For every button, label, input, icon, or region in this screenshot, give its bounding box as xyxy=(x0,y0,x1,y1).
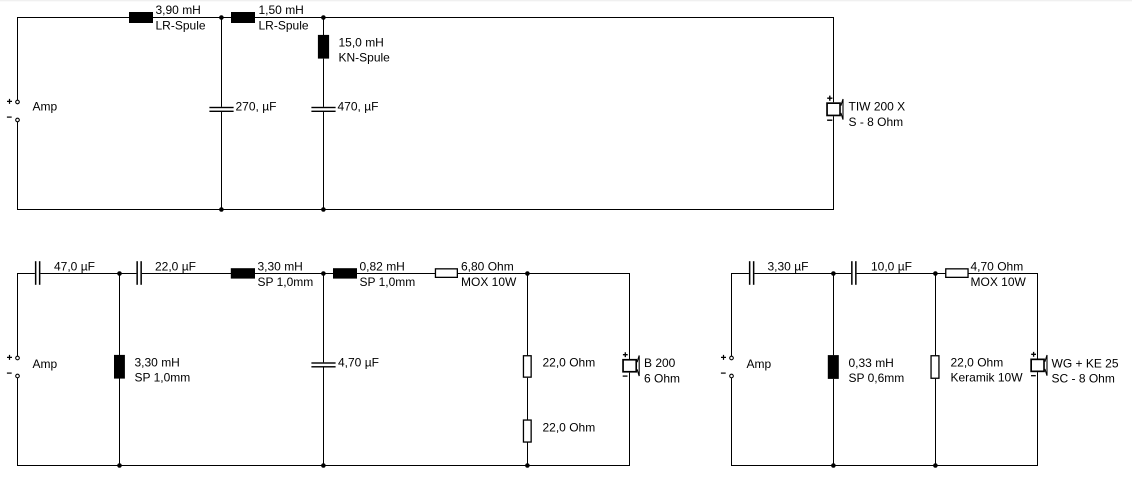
wire left side upper (amp + lead) xyxy=(17,17,19,100)
wire left side lower circuit 3 xyxy=(731,378,733,466)
svg-text:Amp: Amp xyxy=(747,357,772,371)
svg-text:4,70 Ohm: 4,70 Ohm xyxy=(971,259,1024,273)
wire branch F lower xyxy=(833,379,835,466)
svg-text:470, µF: 470, µF xyxy=(338,100,379,114)
inductor L2 1,50 mH LR-Spule xyxy=(231,12,255,23)
svg-text:KN-Spule: KN-Spule xyxy=(339,51,391,65)
inductor L5 0,82 mH SP 1,0mm (series) xyxy=(333,268,357,278)
node junction B on bottom rail xyxy=(321,207,326,212)
node junction A on bottom rail xyxy=(219,207,224,212)
wire branch F upper xyxy=(833,274,835,356)
capacitor C1 270 uF (shunt) xyxy=(209,107,233,108)
speaker LS2 B 200 xyxy=(623,360,636,372)
wire bottom rail circuit 3 xyxy=(731,465,1038,467)
amp terminal - (circuit 2) xyxy=(16,374,20,378)
amp + sign circuit 3 xyxy=(721,355,726,360)
wire top C4 to L4 xyxy=(142,273,231,275)
capacitor C6 3,30 uF (series) xyxy=(749,261,751,285)
wire top C3 to C4 xyxy=(40,273,136,275)
svg-text:6,80 Ohm: 6,80 Ohm xyxy=(461,259,514,273)
wire right side lower circuit 3 xyxy=(1037,372,1039,466)
speaker LS3 + sign xyxy=(1031,352,1036,357)
wire branch E upper xyxy=(527,274,529,356)
node junction G on bottom rail xyxy=(933,463,938,468)
node junction C (top, x=119.5) xyxy=(117,271,122,276)
svg-text:0,33 mH: 0,33 mH xyxy=(849,356,894,370)
svg-text:22,0 Ohm: 22,0 Ohm xyxy=(951,356,1004,370)
node junction C on bottom rail xyxy=(117,463,122,468)
svg-text:47,0 µF: 47,0 µF xyxy=(54,259,95,273)
svg-text:0,82 mH: 0,82 mH xyxy=(360,259,405,273)
node junction E (top, x=527.5) xyxy=(525,271,530,276)
capacitor C2 470 uF (shunt) xyxy=(311,107,335,108)
svg-text:15,0 mH: 15,0 mH xyxy=(339,36,384,50)
svg-text:22,0 µF: 22,0 µF xyxy=(155,259,196,273)
node junction E on bottom rail xyxy=(525,463,530,468)
svg-text:SC - 8 Ohm: SC - 8 Ohm xyxy=(1052,372,1115,386)
wire top C6 to C7 xyxy=(754,273,851,275)
wire branch D lower xyxy=(323,367,325,465)
wire left side upper circuit 3 xyxy=(731,273,733,356)
node junction G (top, x=935.5) xyxy=(933,271,938,276)
wire top L5 to R1 xyxy=(357,273,436,275)
svg-text:LR-Spule: LR-Spule xyxy=(156,19,206,33)
amp terminal + (circuit 1) xyxy=(16,100,20,104)
node junction B (top, x=323) xyxy=(321,15,326,20)
resistor R5 22,0 Ohm Keramik 10W (shunt) xyxy=(931,356,939,379)
wire branch C upper xyxy=(119,274,121,356)
wire bottom rail circuit 2 xyxy=(17,465,630,467)
svg-text:22,0 Ohm: 22,0 Ohm xyxy=(543,420,596,434)
speaker LS3 - sign xyxy=(1031,375,1036,377)
inductor L1 3,90 mH LR-Spule xyxy=(129,12,153,23)
resistor R4 4,70 Ohm MOX 10W (series) xyxy=(946,269,968,278)
svg-text:Amp: Amp xyxy=(33,357,58,371)
wire top between L1 and L2 xyxy=(153,17,231,19)
amp terminal - (circuit 1) xyxy=(16,118,20,122)
svg-text:S - 8 Ohm: S - 8 Ohm xyxy=(849,115,904,129)
node junction A (top, x=221) xyxy=(219,15,224,20)
circuit 3: tweeter branch — wire top-left stub xyxy=(731,273,749,275)
speaker LS3 WG + KE 25 xyxy=(1031,359,1044,371)
svg-text:4,70 µF: 4,70 µF xyxy=(338,355,379,369)
wire branch G lower xyxy=(935,379,937,466)
svg-text:3,90 mH: 3,90 mH xyxy=(156,3,201,17)
speaker LS1 + sign xyxy=(827,96,832,101)
svg-text:3,30 µF: 3,30 µF xyxy=(768,259,809,273)
wire branch A lower (C1 to bottom rail) xyxy=(221,112,223,210)
resistor R3 22,0 Ohm (shunt lower) xyxy=(523,420,531,442)
svg-text:6 Ohm: 6 Ohm xyxy=(644,371,680,385)
wire branch E lower xyxy=(527,443,529,466)
svg-text:MOX 10W: MOX 10W xyxy=(461,275,517,289)
svg-text:3,30 mH: 3,30 mH xyxy=(258,259,303,273)
svg-text:MOX 10W: MOX 10W xyxy=(971,275,1027,289)
svg-text:SP 1,0mm: SP 1,0mm xyxy=(360,275,416,289)
inductor L6 3,30 mH SP 1,0mm (shunt) xyxy=(114,355,125,379)
svg-text:SP 0,6mm: SP 0,6mm xyxy=(849,371,905,385)
capacitor C4 22,0 uF (series) xyxy=(136,261,138,285)
node junction F on bottom rail xyxy=(831,463,836,468)
node junction D (top, x=323) xyxy=(321,271,326,276)
svg-text:B 200: B 200 xyxy=(644,356,676,370)
svg-text:SP 1,0mm: SP 1,0mm xyxy=(258,275,314,289)
amp terminal + (circuit 3) xyxy=(730,356,734,360)
speaker LS2 - sign xyxy=(623,375,628,377)
speaker LS1 TIW 200 X xyxy=(827,103,840,115)
circuit 2: midrange branch — wire top-left stub xyxy=(17,273,35,275)
wire right side upper xyxy=(833,17,835,102)
capacitor C7 10,0 uF (series) xyxy=(851,261,853,285)
capacitor C3 47,0 uF (series) xyxy=(35,261,37,285)
inductor L3 15,0 mH KN-Spule (shunt) xyxy=(318,35,329,59)
wire bottom rail xyxy=(17,209,834,211)
wire top R4 to right corner xyxy=(968,273,1038,275)
amp terminal + (circuit 2) xyxy=(16,356,20,360)
speaker LS2 + sign xyxy=(623,352,628,357)
resistor R1 6,80 Ohm MOX 10W (series) xyxy=(435,269,457,278)
wire branch B lower (C2 to bottom rail) xyxy=(323,112,325,210)
wire branch E middle xyxy=(527,378,529,420)
svg-text:3,30 mH: 3,30 mH xyxy=(135,356,180,370)
svg-text:LR-Spule: LR-Spule xyxy=(259,19,309,33)
svg-text:TIW 200 X: TIW 200 X xyxy=(849,100,906,114)
wire left side lower circuit 2 xyxy=(17,378,19,466)
amp - sign circuit 3 xyxy=(721,372,726,374)
wire branch D upper xyxy=(323,274,325,363)
amp terminal - (circuit 3) xyxy=(730,374,734,378)
svg-text:SP 1,0mm: SP 1,0mm xyxy=(135,371,191,385)
wire right side lower xyxy=(833,116,835,210)
amp - sign xyxy=(7,116,12,118)
amp + sign xyxy=(7,99,12,104)
speaker LS1 - sign xyxy=(827,119,832,121)
svg-text:10,0 µF: 10,0 µF xyxy=(871,259,912,273)
inductor L4 3,30 mH SP 1,0mm (series) xyxy=(231,268,255,278)
wire branch A upper (node to C1) xyxy=(221,18,223,107)
resistor R2 22,0 Ohm (shunt upper) xyxy=(523,356,531,377)
wire top R1 to right corner xyxy=(458,273,630,275)
node junction F (top, x=833.5) xyxy=(831,271,836,276)
node junction D on bottom rail xyxy=(321,463,326,468)
circuit 1: woofer branch — wire top-left segment xyxy=(17,17,129,19)
wire branch C lower xyxy=(119,379,121,466)
inductor L7 0,33 mH SP 0,6mm (shunt) xyxy=(828,355,839,379)
svg-text:Keramik 10W: Keramik 10W xyxy=(951,371,1024,385)
wire branch B upper (node to L3) xyxy=(323,18,325,36)
wire branch G upper xyxy=(935,274,937,356)
wire top from L2 to right corner xyxy=(255,17,834,19)
wire right side upper circuit 3 xyxy=(1037,273,1039,359)
amp - sign circuit 2 xyxy=(7,372,12,374)
svg-text:270, µF: 270, µF xyxy=(236,100,277,114)
wire branch B middle (L3 to C2) xyxy=(323,59,325,107)
svg-text:WG + KE 25: WG + KE 25 xyxy=(1052,357,1119,371)
wire left side upper circuit 2 xyxy=(17,273,19,356)
amp + sign circuit 2 xyxy=(7,355,12,360)
wire top L4 to L5 xyxy=(255,273,333,275)
wire right side lower circuit 2 xyxy=(629,373,631,466)
wire right side upper circuit 2 xyxy=(629,273,631,359)
wire top C7 to R4 xyxy=(857,273,946,275)
wire left side lower (amp - lead) xyxy=(17,122,19,210)
svg-text:Amp: Amp xyxy=(33,100,58,114)
capacitor C5 4,70 uF (shunt) xyxy=(311,362,335,363)
svg-text:22,0 Ohm: 22,0 Ohm xyxy=(543,356,596,370)
svg-text:1,50 mH: 1,50 mH xyxy=(259,3,304,17)
